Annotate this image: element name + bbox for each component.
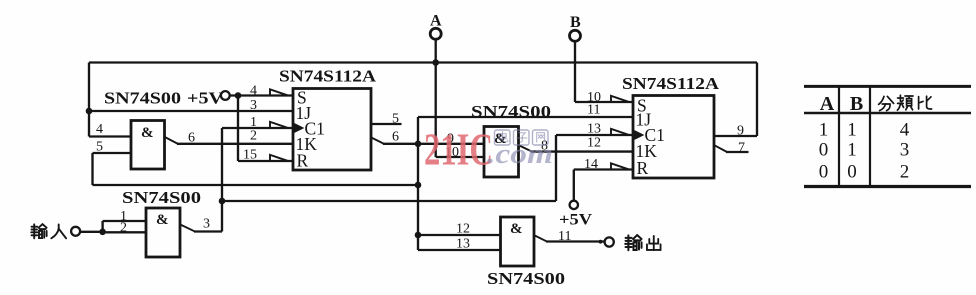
wire: clock riser to FF2 pin 13: [555, 135, 557, 201]
svg-text:B: B: [850, 93, 863, 115]
svg-text:6: 6: [392, 130, 399, 145]
polarity wedge: FF2 pin 13 C1 input: [611, 129, 629, 135]
terminal B pad: [570, 30, 581, 41]
wire: G2 pin 10: [436, 156, 484, 158]
node: bottom feedback junction: [415, 182, 422, 189]
svg-text:A: A: [430, 13, 442, 30]
terminal A pad: [430, 28, 441, 39]
node: +5V junction at FF1 pin 4: [235, 92, 242, 99]
svg-text:SN74S00: SN74S00: [122, 188, 201, 207]
svg-text:14: 14: [584, 157, 598, 172]
svg-text:12: 12: [456, 222, 470, 237]
wire: feedback right vertical to FF2 output 9: [756, 63, 758, 137]
wire: G1 output 6 to FF1 pin 2 (1K): [177, 143, 293, 145]
node: G4 input junction: [415, 232, 422, 239]
svg-text:5: 5: [392, 112, 399, 127]
polarity wedge: FF1 output 6: [372, 138, 384, 144]
svg-text:&: &: [510, 221, 523, 237]
svg-text:+5V: +5V: [559, 212, 593, 229]
svg-text:SN74S00: SN74S00: [104, 89, 181, 108]
wire: top feedback bus: [89, 61, 757, 63]
svg-text:3: 3: [900, 140, 910, 161]
svg-text:4: 4: [96, 122, 103, 137]
wire: FF1 pin 15 (R): [238, 160, 293, 162]
wire: FF1 pin 3 (1J): [89, 110, 293, 112]
flip-flop U1 SN74S112A body: [293, 89, 371, 171]
terminal: +5V right pad: [570, 201, 578, 209]
gate G1 SN74S00 body: [131, 121, 165, 170]
wire: G1 pin5 vertical drop: [91, 153, 93, 185]
svg-text:12: 12: [587, 136, 601, 151]
wire: clock vertical riser: [221, 128, 223, 232]
svg-text:0: 0: [819, 140, 829, 161]
gate G3 SN74S00 body: [146, 208, 180, 257]
node: FF1 output 6 junction: [415, 141, 422, 148]
polarity wedge: G2 output 8: [519, 145, 532, 151]
svg-text:+5V: +5V: [187, 89, 224, 108]
wire: FF1 output 6 to G2 pin 9: [383, 143, 484, 145]
svg-text:13: 13: [587, 122, 601, 137]
wire: FF2 pin 11 (1J): [418, 116, 633, 118]
svg-text:15: 15: [243, 148, 257, 163]
svg-text:2: 2: [120, 221, 127, 236]
table data rows: [819, 119, 910, 182]
wire: input terminal lead: [80, 231, 103, 233]
svg-text:1: 1: [847, 119, 857, 140]
svg-text:11: 11: [587, 103, 600, 118]
svg-text:SN74S00: SN74S00: [487, 269, 565, 288]
wire: terminal A vertical: [435, 40, 437, 158]
svg-text:R: R: [637, 158, 649, 178]
wire: +5V to FF1 pin 4 (S): [230, 94, 293, 96]
polarity wedge: G4 output 11: [535, 235, 547, 241]
svg-text:&: &: [156, 212, 169, 228]
polarity wedge: G1 output 6: [165, 137, 178, 144]
wire: G3 output 3: [194, 230, 222, 232]
gate G2 SN74S00 body: [484, 127, 519, 178]
svg-text:.com: .com: [487, 138, 553, 170]
wire: G4 output 11 to output terminal: [546, 240, 606, 242]
table: division-ratio truth table: [804, 86, 971, 186]
polarity wedge: FF1 pin 1 C1 input: [270, 122, 288, 128]
svg-text:6: 6: [188, 131, 195, 146]
wire: FF2 output 7 stub: [726, 151, 749, 153]
wire: gate G1 input pin 5: [93, 152, 132, 154]
wire: G3 pin 1: [103, 220, 146, 222]
svg-text:A: A: [820, 93, 835, 115]
node: clock bus junction: [219, 198, 226, 205]
svg-text:5: 5: [96, 140, 103, 155]
wire: clock bus bottom run: [222, 200, 556, 202]
terminal: input pad: [71, 227, 80, 236]
svg-text:SN74S00: SN74S00: [471, 102, 551, 121]
svg-text:4: 4: [250, 84, 257, 99]
wire: Q-bar feedback bottom run: [93, 184, 419, 186]
watermark: 电子网 boxed characters: [495, 130, 549, 145]
clock triangle: FF2 C1: [634, 131, 643, 140]
wire: G4 pin 13: [418, 249, 501, 251]
svg-text:1: 1: [847, 140, 857, 161]
node: junction on top bus at A: [432, 59, 439, 66]
node: nub at output terminal: [599, 240, 603, 244]
label: input Chinese 输入: [31, 224, 66, 238]
wire: FF2 pin 13 (C1): [556, 134, 633, 136]
svg-text:B: B: [570, 14, 581, 31]
wire: input split vertical: [101, 221, 103, 232]
wire: FF1 pin 1 clock line: [222, 127, 293, 129]
svg-text:21IC: 21IC: [424, 124, 493, 175]
wire: FF1 output 5 stub: [371, 123, 402, 125]
wire: gate G1 input pin 4: [89, 135, 131, 137]
wire: terminal B vertical: [574, 42, 576, 103]
svg-text:R: R: [297, 151, 309, 171]
svg-text:13: 13: [456, 237, 470, 252]
label: output Chinese 输出: [625, 235, 660, 250]
wire: FF2 pin 10 (S): [575, 101, 633, 103]
polarity wedge: FF2 pin 10 S input: [611, 96, 629, 102]
table header 分频比: [879, 95, 932, 110]
svg-text:2: 2: [900, 161, 910, 182]
node: input split junction: [99, 229, 106, 236]
polarity wedge: FF1 pin 4 S input: [270, 89, 288, 95]
node: junction FF1 1J tap: [86, 108, 93, 115]
wire: G2 output 8 to FF2 pin 12 (1K): [531, 150, 633, 152]
polarity wedge: FF1 pin 15 R input: [270, 155, 288, 161]
svg-text:2: 2: [250, 129, 257, 144]
wire: FF2 pin 9 output: [714, 135, 757, 137]
wire: left feedback vertical: [88, 63, 90, 137]
wire: FF2 pin 14 (R): [574, 168, 633, 170]
flip-flop U2 SN74S112A body: [633, 96, 714, 179]
svg-text:3: 3: [250, 98, 257, 113]
terminal: +5V left pad: [221, 91, 230, 100]
polarity wedge: FF2 pin 14 R input: [611, 163, 629, 169]
svg-text:4: 4: [900, 119, 910, 140]
polarity wedge: G3 output 3: [181, 225, 195, 232]
svg-text:0: 0: [819, 161, 829, 182]
svg-text:11: 11: [558, 229, 571, 244]
svg-text:7: 7: [738, 141, 745, 156]
wire: G4 pin 12: [418, 234, 501, 236]
wire: G3 pin 2: [103, 231, 146, 233]
svg-text:0: 0: [847, 161, 857, 182]
svg-text:1: 1: [819, 119, 829, 140]
svg-text:3: 3: [203, 217, 210, 232]
polarity wedge: FF2 output 7: [715, 145, 728, 152]
wire: +5V vertical to pin 15: [237, 96, 239, 162]
svg-text:SN74S112A: SN74S112A: [622, 74, 720, 93]
wire: +5V right vertical: [573, 170, 575, 201]
svg-text:9: 9: [737, 124, 744, 139]
wire: node vertical at x418: [417, 117, 419, 250]
svg-text:SN74S112A: SN74S112A: [279, 67, 377, 86]
clock triangle: FF1 C1: [294, 124, 303, 133]
terminal: output pad: [605, 237, 614, 246]
gate G4 SN74S00 body: [501, 217, 535, 266]
svg-text:&: &: [141, 125, 154, 141]
